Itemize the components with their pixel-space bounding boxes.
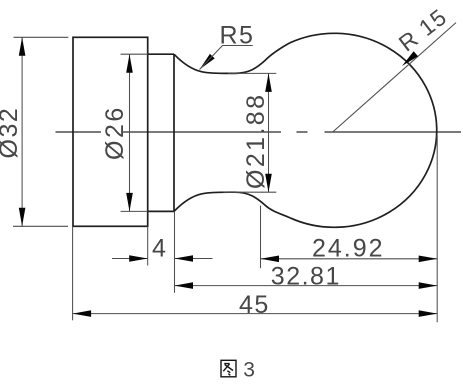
dimension phi21.88: extension lines xyxy=(224,73,277,192)
dimension 24.92: line xyxy=(261,258,438,260)
svg-text:3: 3 xyxy=(243,359,255,382)
centerline (dash-dot axis) xyxy=(56,131,462,133)
part outline: flange rectangle (phi32) xyxy=(73,37,148,226)
dimension phi21.88: dimension line xyxy=(268,73,270,192)
extension line at neck face x=174.5 (for dims 4 and 32.81) xyxy=(174,211,176,292)
dimension phi21.88: arrowheads xyxy=(265,73,272,92)
dimension phi32: arrowheads xyxy=(19,37,26,56)
svg-text:45: 45 xyxy=(239,291,270,319)
extension line below left face (for dim 45) xyxy=(72,226,74,320)
leader R5: line and shoulder xyxy=(200,46,253,70)
dimension 4: arrowheads (outside, pointing inward) xyxy=(129,255,148,262)
dimension phi26: arrowheads xyxy=(126,54,133,72)
part outline: sphere R15 (big blob, arc only, left side open at neck) xyxy=(290,33,437,227)
svg-text:R5: R5 xyxy=(220,22,255,50)
dimension phi26: dimension line xyxy=(129,54,131,211)
svg-text:24.92: 24.92 xyxy=(312,234,385,262)
svg-text:4: 4 xyxy=(152,234,166,262)
dimension phi32: dimension line xyxy=(21,37,23,226)
leader R5: arrow xyxy=(200,54,215,70)
dimension phi32: extension lines xyxy=(13,37,68,226)
caption: hand-drawn CJK glyph tu (picture) xyxy=(221,360,236,377)
dimension 32.81: arrowheads xyxy=(175,282,194,289)
dimension phi26: extension lines xyxy=(121,54,148,211)
extension line below flange right face (for dim 4) xyxy=(147,226,149,265)
svg-text:Ø21.88: Ø21.88 xyxy=(242,93,270,189)
svg-text:32.81: 32.81 xyxy=(271,263,341,291)
part outline: neck top (R5 fillet into sphere) xyxy=(174,43,290,74)
dimension 45: arrowheads xyxy=(73,310,92,317)
part outline: phi26 cylinder xyxy=(148,54,174,211)
dimension 24.92: arrowheads xyxy=(261,256,280,263)
leader R15: arrowhead on arc xyxy=(402,51,418,66)
svg-text:Ø32: Ø32 xyxy=(0,107,23,159)
extension line at x=260.5 (for dim 24.92) xyxy=(260,206,262,269)
dimension 45: line xyxy=(73,313,438,315)
extension line right end x=437.2 (for dims 24.92/32.81/45) xyxy=(436,135,438,322)
leader R15: line from sphere center xyxy=(332,23,456,133)
part outline: neck bottom (mirror) xyxy=(174,192,290,218)
dimension 4: tails and line xyxy=(112,258,213,260)
svg-text:Ø26: Ø26 xyxy=(101,105,129,160)
dimension 32.81: line xyxy=(175,285,438,287)
